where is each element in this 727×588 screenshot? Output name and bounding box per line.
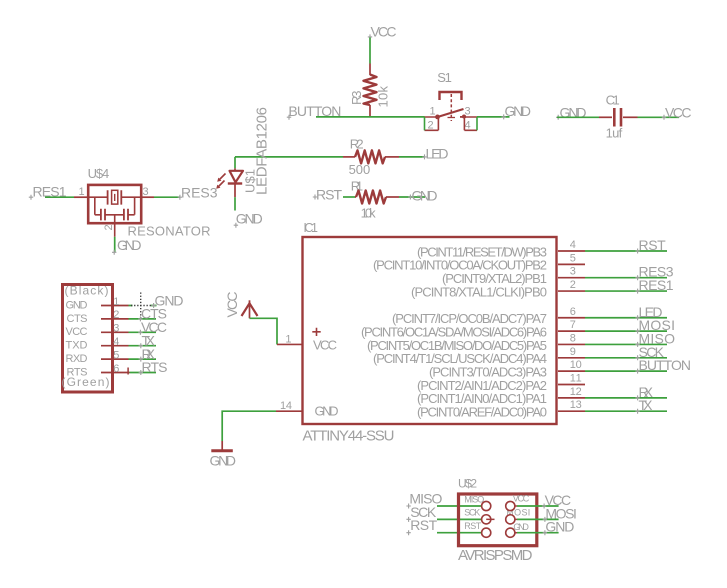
IC1 pin 14 stub bbox=[276, 410, 303, 412]
net label VCC bbox=[138, 319, 167, 335]
ground symbol (below IC1) bbox=[210, 441, 237, 469]
net label TX bbox=[635, 397, 653, 414]
svg-text:LEDFAB1206: LEDFAB1206 bbox=[254, 107, 271, 195]
svg-text:RES1: RES1 bbox=[639, 277, 674, 293]
wire RST to U$2 bbox=[437, 532, 482, 534]
svg-text:2: 2 bbox=[570, 279, 576, 291]
svg-text:RTS: RTS bbox=[67, 366, 88, 378]
svg-text:C1: C1 bbox=[606, 92, 620, 107]
wire SCK to U$2 bbox=[437, 518, 482, 520]
wire VCC (U$2 right) bbox=[517, 505, 559, 507]
svg-text:(PCINT8/XTAL1/CLKI)PB0: (PCINT8/XTAL1/CLKI)PB0 bbox=[411, 284, 547, 299]
net label LED bbox=[422, 146, 448, 162]
svg-text:1: 1 bbox=[113, 296, 119, 308]
svg-text:5: 5 bbox=[570, 252, 576, 264]
svg-text:3: 3 bbox=[143, 186, 149, 198]
svg-text:2: 2 bbox=[113, 309, 119, 321]
svg-text:8: 8 bbox=[570, 332, 576, 344]
wire MOSI (pin7) bbox=[585, 330, 667, 332]
net label GND (at S1) bbox=[502, 103, 532, 119]
svg-text:6: 6 bbox=[113, 363, 119, 375]
svg-text:GND: GND bbox=[315, 404, 339, 419]
IC1 pin name VCC bbox=[312, 328, 320, 336]
net label SCK (ISP left) bbox=[406, 504, 436, 522]
net label CTS bbox=[138, 306, 167, 322]
svg-text:4: 4 bbox=[570, 239, 576, 251]
svg-text:R1: R1 bbox=[351, 178, 363, 193]
wire MOSI (U$2 right) bbox=[517, 518, 559, 520]
net label VCC (U$2) bbox=[542, 492, 571, 509]
wire R2 to LED label bbox=[399, 156, 425, 158]
wire GND (U$2 right) bbox=[517, 532, 559, 534]
wire RX bbox=[129, 358, 157, 360]
svg-text:CTS: CTS bbox=[67, 313, 88, 325]
svg-text:1: 1 bbox=[79, 186, 85, 198]
svg-text:R3: R3 bbox=[349, 91, 364, 106]
wire IC1 pin14 to GND bbox=[222, 411, 276, 441]
net label GND (at R1) bbox=[408, 187, 437, 203]
svg-text:GND: GND bbox=[505, 103, 532, 119]
net label RES3 bbox=[635, 264, 673, 281]
net label MISO bbox=[635, 330, 675, 346]
capacitor C1 bbox=[599, 92, 638, 140]
svg-text:RXD: RXD bbox=[66, 353, 88, 365]
svg-text:BUTTON: BUTTON bbox=[639, 357, 692, 373]
wire BUTTON net to S1 pin1 bbox=[316, 116, 425, 118]
IC1 pin 1 stub bbox=[277, 343, 303, 345]
wire C1 to VCC label bbox=[638, 116, 680, 118]
wire RES3 (pin3) bbox=[585, 277, 667, 279]
svg-text:S1: S1 bbox=[437, 70, 452, 85]
net label GND (U$2) bbox=[543, 519, 575, 536]
wire RX (pin12) bbox=[585, 397, 667, 399]
net label GND (J1 pin1) bbox=[151, 292, 183, 308]
wire RTS bbox=[130, 372, 157, 374]
wire TX (pin13) bbox=[585, 410, 667, 412]
wire CTS bbox=[129, 318, 157, 320]
connector U$2 AVRISPSMD bbox=[458, 476, 537, 564]
net label GND (at C1 left) bbox=[556, 104, 587, 120]
svg-text:TX: TX bbox=[639, 397, 654, 413]
svg-text:12: 12 bbox=[570, 386, 582, 398]
wire R1 to GND label bbox=[399, 196, 425, 198]
wire S1 pin4 to GND label bbox=[477, 116, 510, 118]
resistor R1 bbox=[351, 178, 399, 220]
svg-text:RST: RST bbox=[316, 187, 342, 203]
vcc symbol (left of IC1) bbox=[224, 292, 258, 319]
resistor R2 bbox=[343, 136, 399, 177]
svg-text:7: 7 bbox=[570, 319, 576, 331]
svg-text:13: 13 bbox=[570, 399, 582, 411]
wire BUTTON (pin10) bbox=[585, 370, 667, 372]
net label RX bbox=[139, 346, 156, 362]
svg-text:VCC: VCC bbox=[66, 326, 88, 338]
LED U$1 bbox=[216, 107, 270, 211]
wire RES1 (pin2) bbox=[585, 290, 667, 292]
svg-text:3: 3 bbox=[113, 323, 119, 335]
wire resonator pin3 to RES3 label bbox=[154, 196, 180, 198]
vcc symbol top (net VCC at R3) bbox=[368, 24, 397, 40]
svg-text:3: 3 bbox=[570, 266, 576, 278]
wire MISO (pin8) bbox=[585, 343, 667, 345]
svg-text:14: 14 bbox=[280, 400, 292, 412]
svg-text:(Black): (Black) bbox=[65, 284, 109, 298]
svg-text:ATTINY44-SSU: ATTINY44-SSU bbox=[303, 428, 395, 445]
net label VCC (at C1 right) bbox=[662, 104, 692, 120]
svg-text:10: 10 bbox=[570, 359, 582, 371]
svg-text:10k: 10k bbox=[376, 86, 391, 108]
svg-text:GND: GND bbox=[412, 187, 438, 203]
svg-text:GND: GND bbox=[210, 453, 237, 469]
wire RST (pin4) bbox=[585, 250, 667, 252]
svg-text:GND: GND bbox=[236, 211, 263, 227]
net label RX bbox=[635, 384, 653, 401]
svg-text:VCC: VCC bbox=[513, 494, 530, 504]
wire GND dotted (J1 pin1) bbox=[129, 293, 157, 320]
svg-text:6: 6 bbox=[570, 306, 576, 318]
svg-text:RST: RST bbox=[464, 521, 482, 531]
IC1 right pin numbers bbox=[570, 239, 582, 411]
wire TX bbox=[129, 345, 157, 347]
net label MOSI (U$2) bbox=[543, 505, 577, 522]
op IC1 ATTINY44-SSU bbox=[303, 221, 557, 445]
svg-text:RES3: RES3 bbox=[181, 185, 218, 201]
svg-text:GND: GND bbox=[513, 522, 529, 532]
wire RES1 to resonator pin1 bbox=[45, 196, 74, 198]
net label RTS bbox=[139, 359, 168, 375]
svg-text:VCC: VCC bbox=[313, 337, 337, 352]
svg-text:VCC: VCC bbox=[371, 24, 397, 40]
svg-text:SCK: SCK bbox=[464, 508, 480, 518]
svg-text:VCC: VCC bbox=[224, 292, 240, 318]
resistor R3 bbox=[349, 64, 391, 117]
svg-text:4: 4 bbox=[113, 336, 119, 348]
svg-text:U$2: U$2 bbox=[458, 476, 477, 490]
net label RST bbox=[635, 237, 666, 254]
net label BUTTON bbox=[287, 103, 342, 120]
S1 pad 2 box bbox=[425, 117, 439, 130]
net label RES3 bbox=[178, 185, 218, 201]
svg-text:TXD: TXD bbox=[66, 340, 88, 352]
svg-text:LED: LED bbox=[426, 146, 449, 162]
net label TX bbox=[139, 332, 156, 348]
svg-text:GND: GND bbox=[117, 237, 142, 253]
svg-text:500: 500 bbox=[349, 162, 371, 177]
net label RES1 (far left) bbox=[29, 184, 67, 200]
svg-text:RST: RST bbox=[639, 237, 667, 253]
U$2 pad circles bbox=[482, 501, 491, 510]
svg-text:GND: GND bbox=[545, 519, 574, 535]
LED light arrows bbox=[220, 174, 226, 180]
svg-text:1: 1 bbox=[430, 106, 436, 118]
net label RST (ISP left) bbox=[406, 517, 437, 535]
wire VCC bbox=[129, 331, 157, 333]
net label LED bbox=[635, 304, 662, 320]
wire VCC to IC1 pin1 bbox=[250, 318, 278, 344]
svg-text:3: 3 bbox=[465, 106, 471, 118]
svg-text:1: 1 bbox=[285, 334, 291, 346]
svg-text:MISO: MISO bbox=[464, 494, 484, 504]
wire VCC to R3 bbox=[369, 38, 371, 64]
svg-text:9: 9 bbox=[570, 346, 576, 358]
IC1 right pin stubs bbox=[558, 251, 585, 411]
wire resonator pin2 to GND bbox=[114, 237, 116, 252]
resonator U$4 bbox=[74, 166, 211, 239]
svg-text:RTS: RTS bbox=[142, 359, 168, 375]
svg-text:IC1: IC1 bbox=[303, 221, 318, 235]
svg-text:GND: GND bbox=[66, 299, 88, 311]
net label GND (below resonator) bbox=[112, 237, 142, 255]
svg-text:VCC: VCC bbox=[665, 104, 692, 120]
svg-text:5: 5 bbox=[113, 349, 119, 361]
net label RST (at R1) bbox=[313, 187, 343, 203]
svg-text:R2: R2 bbox=[350, 136, 364, 151]
wire LED net from LED anode to R2 bbox=[235, 156, 343, 158]
wire SCK (pin9) bbox=[585, 357, 667, 359]
net label MISO (ISP left) bbox=[406, 491, 442, 509]
wire LED (pin6) bbox=[585, 317, 667, 319]
net label GND (below LED) bbox=[234, 211, 263, 228]
J1 pin stubs bbox=[101, 306, 130, 373]
net label BUTTON bbox=[635, 357, 691, 373]
switch S1 bbox=[425, 70, 478, 131]
svg-text:MOSI: MOSI bbox=[506, 508, 530, 518]
svg-text:AVRISPSMD: AVRISPSMD bbox=[458, 547, 533, 564]
svg-text:11: 11 bbox=[570, 373, 582, 385]
svg-text:2: 2 bbox=[103, 224, 115, 230]
FTDI header J1 bbox=[62, 284, 130, 392]
svg-text:(PCINT0/AREF/ADC0)PA0: (PCINT0/AREF/ADC0)PA0 bbox=[417, 405, 547, 420]
wire GND to C1 bbox=[557, 116, 599, 118]
net label RES1 bbox=[635, 277, 673, 294]
S1 pad 4 box bbox=[464, 117, 477, 130]
wire RST to R1 bbox=[343, 196, 355, 198]
svg-text:1uf: 1uf bbox=[606, 126, 623, 141]
net label MOSI bbox=[635, 317, 675, 334]
wire MISO to U$2 bbox=[437, 505, 482, 507]
svg-text:U$4: U$4 bbox=[88, 166, 110, 181]
svg-text:RST: RST bbox=[410, 517, 437, 533]
svg-text:10k: 10k bbox=[361, 206, 377, 221]
net label SCK bbox=[635, 344, 664, 361]
